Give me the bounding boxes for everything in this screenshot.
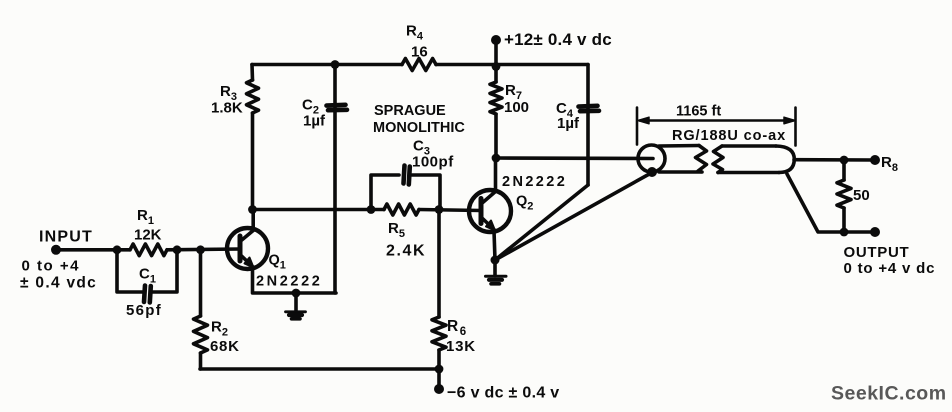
- node R2 top junction: [196, 245, 205, 254]
- svg-text:INPUT: INPUT: [39, 229, 93, 246]
- wire middle rail Q1 collector to Q2 base: [253, 210, 482, 211]
- wire C2 branch vertical: [333, 65, 337, 294]
- wire Q1 emitter to ground rail: [253, 270, 337, 294]
- node C2 top junction: [331, 60, 340, 69]
- svg-text:1165 ft: 1165 ft: [676, 104, 721, 120]
- node coax shield junction: [647, 167, 657, 177]
- wire R2 branch vertical: [199, 250, 203, 370]
- transistor Q1 2N2222: [227, 210, 268, 270]
- wire +12 stub: [494, 40, 498, 67]
- wire top rail: [252, 63, 588, 67]
- node C3 left junction: [367, 205, 376, 214]
- svg-text:RG/188U co-ax: RG/188U co-ax: [672, 128, 786, 144]
- node output junction: [840, 228, 849, 237]
- svg-text:2N2222: 2N2222: [502, 174, 567, 190]
- wire input: [56, 247, 240, 251]
- svg-text:100: 100: [504, 99, 529, 116]
- svg-text:MONOLITHIC: MONOLITHIC: [373, 120, 465, 136]
- svg-text:1µf: 1µf: [557, 115, 580, 132]
- svg-text:16: 16: [411, 44, 428, 61]
- wire coax to R8: [794, 158, 875, 162]
- transistor Q2 2N2222: [469, 158, 511, 233]
- svg-text:56pf: 56pf: [126, 302, 162, 319]
- wire C4 branch vertical: [586, 65, 590, 186]
- wire R7 branch vertical: [494, 67, 498, 159]
- resistor R4 16: [402, 59, 436, 71]
- svg-text:R6: R6: [447, 318, 466, 338]
- svg-text:R4: R4: [406, 23, 424, 43]
- svg-text:0 to +4 v dc: 0 to +4 v dc: [844, 260, 936, 277]
- wire C3 loop: [371, 175, 440, 210]
- svg-text:+12± 0.4 v dc: +12± 0.4 v dc: [504, 30, 612, 49]
- svg-text:−6 v dc ± 0.4 v: −6 v dc ± 0.4 v: [447, 385, 559, 402]
- wire R3 branch vertical: [250, 65, 254, 210]
- ground Q1 emitter: [286, 293, 306, 319]
- svg-text:C1: C1: [139, 266, 156, 286]
- node R8 terminal: [870, 155, 880, 165]
- capacitor C1 56pf: [144, 286, 151, 303]
- wire 50 ohm branch: [842, 160, 846, 232]
- wire Q2 collector to coax: [496, 156, 653, 160]
- svg-text:SPRAGUE: SPRAGUE: [374, 103, 446, 119]
- svg-text:1.8K: 1.8K: [211, 100, 243, 117]
- svg-text:R2: R2: [211, 319, 228, 339]
- resistor R6 13K: [432, 317, 446, 350]
- node R7 bottom junction: [492, 154, 501, 163]
- resistor R5 2.4K: [384, 204, 419, 215]
- capacitor C4 1uf: [579, 106, 600, 111]
- svg-text:100pf: 100pf: [412, 154, 454, 171]
- wire coax shield to output: [787, 174, 875, 232]
- svg-text:2N2222: 2N2222: [256, 274, 322, 290]
- node output terminal: [870, 227, 880, 237]
- resistor R3 1.8K: [247, 80, 259, 113]
- svg-text:1µf: 1µf: [303, 113, 326, 130]
- svg-text:R5: R5: [388, 220, 405, 240]
- svg-text:68K: 68K: [210, 338, 240, 355]
- node Q1 collector junction: [248, 205, 257, 214]
- node R6 bottom junction: [435, 365, 444, 374]
- node Q2 emitter junction: [491, 256, 500, 265]
- svg-text:12K: 12K: [134, 227, 162, 244]
- svg-text:13K: 13K: [446, 338, 476, 355]
- wire bottom rail: [200, 367, 439, 371]
- dimension 1165 ft: [637, 108, 796, 146]
- coax cable right piece: [713, 146, 794, 173]
- coax cable left piece: [638, 145, 707, 172]
- resistor R1 12K: [130, 244, 167, 256]
- node R8 junction: [840, 156, 849, 165]
- capacitor C3 100pf: [404, 166, 410, 185]
- svg-text:OUTPUT: OUTPUT: [844, 244, 910, 261]
- node R6 top junction: [435, 205, 444, 214]
- svg-text:50: 50: [853, 187, 870, 204]
- node -6v terminal: [434, 384, 444, 394]
- wire C1 loop: [117, 250, 177, 292]
- svg-text:Q2: Q2: [516, 194, 533, 213]
- svg-text:2.4K: 2.4K: [386, 243, 426, 260]
- node C1 left junction: [113, 245, 122, 254]
- wire C4 branch diagonal to Q2 emitter: [495, 185, 588, 260]
- svg-text:± 0.4 vdc: ± 0.4 vdc: [20, 275, 97, 292]
- resistor R7 100: [490, 82, 502, 114]
- ground Q2 emitter: [486, 276, 507, 284]
- node Q1 emitter ground junction: [292, 289, 301, 298]
- wire coax shield diagonal to Q2 emitter: [495, 173, 652, 261]
- resistor R2 68K: [194, 316, 208, 353]
- node input terminal: [51, 245, 61, 255]
- capacitor C2 1uf: [327, 105, 348, 110]
- svg-text:SeekIC.com: SeekIC.com: [831, 383, 947, 405]
- svg-text:R8: R8: [881, 154, 898, 174]
- svg-text:0 to +4: 0 to +4: [22, 258, 80, 275]
- node +12 terminal: [491, 35, 501, 45]
- node C1 right junction: [173, 245, 182, 254]
- svg-text:Q1: Q1: [269, 253, 286, 272]
- wire R6 branch vertical: [437, 210, 441, 390]
- svg-text:R1: R1: [137, 207, 154, 227]
- node R4 right junction: [492, 62, 501, 71]
- resistor 50 ohm: [837, 180, 851, 208]
- wire Q2 emitter: [494, 231, 495, 276]
